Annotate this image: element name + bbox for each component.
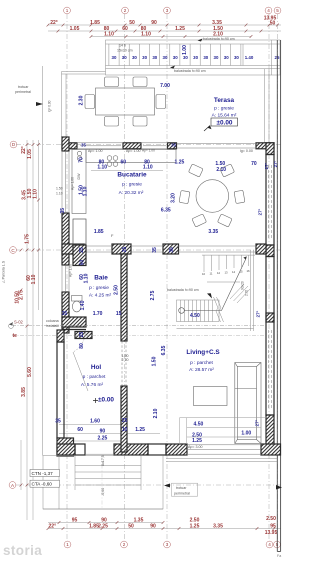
svg-text:30: 30	[122, 55, 127, 60]
svg-text:3.35: 3.35	[208, 229, 218, 235]
svg-text:3: 3	[166, 542, 169, 547]
svg-text:3.20: 3.20	[171, 193, 177, 203]
svg-text:1.40: 1.40	[80, 300, 86, 310]
svg-text:5.60: 5.60	[27, 367, 33, 377]
svg-text:30: 30	[193, 55, 198, 60]
svg-text:2.10: 2.10	[122, 358, 129, 362]
svg-text:Ap= 1.00: Ap= 1.00	[126, 149, 141, 153]
svg-text:13: 13	[225, 271, 229, 275]
svg-text:3: 3	[166, 8, 169, 13]
svg-text:1.25: 1.25	[135, 427, 145, 433]
svg-text:A: 15.64 m²: A: 15.64 m²	[212, 113, 237, 119]
svg-text:Ap= 1.00: Ap= 1.00	[142, 149, 155, 153]
svg-text:14: 14	[232, 270, 236, 274]
svg-text:Ap= 1.00: Ap= 1.00	[88, 149, 103, 153]
svg-text:10.50: 10.50	[15, 291, 21, 304]
svg-text:2.10: 2.10	[216, 167, 226, 173]
svg-text:35: 35	[169, 247, 175, 253]
svg-text:1.10: 1.10	[33, 189, 39, 199]
svg-text:Hol: Hol	[91, 364, 102, 371]
svg-text:1: 1	[66, 8, 69, 13]
svg-text:30: 30	[234, 55, 239, 60]
svg-text:60: 60	[77, 427, 83, 433]
svg-text:90: 90	[150, 524, 156, 530]
svg-text:25: 25	[122, 247, 128, 253]
svg-text:25: 25	[122, 418, 128, 424]
svg-text:lg= 0.00: lg= 0.00	[240, 149, 253, 153]
svg-text:4: 4	[268, 542, 271, 547]
svg-text:70: 70	[251, 161, 257, 167]
svg-text:4.50: 4.50	[194, 422, 204, 428]
svg-text:15x30 cm: 15x30 cm	[117, 49, 133, 53]
svg-text:1.25: 1.25	[190, 524, 200, 530]
svg-text:15: 15	[116, 311, 122, 317]
svg-text:25: 25	[79, 332, 85, 338]
svg-text:70: 70	[79, 157, 85, 163]
svg-text:A: 5.76 m²: A: 5.76 m²	[81, 382, 104, 388]
svg-text:10: 10	[122, 427, 128, 433]
svg-text:Terasa: Terasa	[214, 97, 235, 104]
svg-text:50: 50	[129, 20, 135, 26]
svg-text:80: 80	[79, 343, 85, 349]
svg-text:p : parchet: p : parchet	[190, 360, 213, 366]
svg-text:Ap= 1.00: Ap= 1.00	[71, 177, 75, 190]
svg-text:△ Parcela L.S: △ Parcela L.S	[2, 260, 6, 283]
svg-text:30: 30	[203, 55, 208, 60]
svg-text:2: 2	[124, 8, 127, 13]
svg-text:1.85: 1.85	[90, 20, 100, 26]
svg-text:60: 60	[121, 160, 127, 166]
svg-text:1.10: 1.10	[31, 274, 37, 284]
svg-text:95: 95	[72, 518, 78, 524]
svg-text:27°: 27°	[258, 208, 263, 215]
svg-text:14 b: 14 b	[119, 44, 126, 48]
svg-text:2.75: 2.75	[150, 290, 156, 300]
svg-text:35: 35	[171, 143, 176, 148]
svg-text:p : parchet: p : parchet	[83, 374, 106, 380]
svg-text:2.50: 2.50	[114, 285, 120, 295]
svg-text:perimetral: perimetral	[15, 90, 31, 94]
svg-text:12: 12	[217, 271, 221, 275]
svg-text:1.25: 1.25	[175, 159, 185, 165]
svg-text:lg= 0.00: lg= 0.00	[48, 100, 52, 112]
svg-text:-0,60: -0,60	[101, 488, 105, 496]
svg-text:coloana: coloana	[46, 319, 59, 323]
svg-text:1.05: 1.05	[70, 26, 80, 32]
svg-text:1.10: 1.10	[143, 164, 153, 170]
svg-text:trotuar: trotuar	[176, 486, 187, 490]
svg-text:balustrada h=90 cm: balustrada h=90 cm	[174, 69, 206, 73]
svg-text:Baie: Baie	[94, 275, 108, 282]
svg-text:6.35: 6.35	[161, 345, 167, 355]
svg-text:35: 35	[60, 208, 66, 214]
svg-text:1.75: 1.75	[25, 234, 31, 244]
svg-text:22°: 22°	[50, 20, 58, 26]
svg-text:1.50: 1.50	[56, 187, 63, 191]
svg-text:30: 30	[163, 55, 168, 60]
svg-text:1.25: 1.25	[192, 438, 202, 444]
svg-text:CTN -1,37: CTN -1,37	[32, 471, 54, 476]
svg-text:1: 1	[66, 542, 69, 547]
svg-text:2.30: 2.30	[78, 95, 84, 105]
svg-text:1.25: 1.25	[175, 26, 185, 32]
svg-text:6.35: 6.35	[161, 208, 171, 214]
svg-text:27°: 27°	[256, 310, 261, 317]
svg-text:1.10: 1.10	[56, 192, 63, 196]
svg-text:A: 4.25 m²: A: 4.25 m²	[89, 293, 112, 299]
svg-text:2: 2	[123, 542, 126, 547]
svg-text:90x20: 90x20	[241, 281, 245, 290]
svg-text:16: 16	[247, 269, 251, 273]
svg-text:50: 50	[270, 21, 276, 27]
svg-text:30: 30	[173, 55, 178, 60]
svg-text:35: 35	[81, 143, 86, 148]
svg-text:30: 30	[132, 55, 137, 60]
svg-text:Bucatarie: Bucatarie	[117, 172, 147, 179]
svg-text:2.70: 2.70	[245, 290, 249, 296]
svg-text:35: 35	[62, 311, 68, 317]
svg-text:A: 20.32 m²: A: 20.32 m²	[119, 190, 144, 196]
svg-text:30: 30	[142, 55, 147, 60]
svg-text:4: 4	[267, 8, 270, 13]
svg-text:Ap= 1.00: Ap= 1.00	[69, 264, 73, 277]
svg-text:3.85: 3.85	[21, 387, 27, 397]
svg-text:balustrada h=90 cm: balustrada h=90 cm	[167, 288, 199, 292]
svg-text:27°: 27°	[264, 162, 269, 169]
svg-text:41,5 R: 41,5 R	[70, 324, 80, 328]
svg-text:1.50: 1.50	[152, 356, 158, 366]
svg-text:te: te	[13, 333, 18, 339]
svg-text:25: 25	[79, 247, 85, 253]
svg-text:balustrada h=90 cm: balustrada h=90 cm	[203, 37, 235, 41]
svg-text:1.10: 1.10	[84, 273, 90, 283]
svg-text:3.35: 3.35	[213, 524, 223, 530]
svg-text:10: 10	[202, 272, 206, 276]
svg-text:storia: storia	[3, 543, 42, 558]
svg-text:CTA -0,60: CTA -0,60	[32, 482, 53, 487]
svg-text:27°: 27°	[273, 160, 278, 167]
svg-text:perimetral: perimetral	[174, 492, 190, 496]
svg-text:trotuar: trotuar	[18, 85, 29, 89]
svg-text:S-02: S-02	[14, 320, 24, 325]
svg-text:1.70: 1.70	[93, 311, 103, 317]
svg-text:1.40: 1.40	[245, 55, 254, 60]
svg-text:1.35: 1.35	[134, 518, 144, 524]
svg-text:27°: 27°	[255, 419, 260, 426]
svg-text:2.10: 2.10	[153, 408, 159, 418]
svg-text:1.00: 1.00	[241, 431, 251, 437]
svg-text:1.60: 1.60	[90, 419, 100, 425]
svg-text:8x17,5: 8x17,5	[101, 455, 105, 466]
svg-text:35: 35	[55, 419, 61, 425]
svg-text:instalatii: instalatii	[46, 324, 59, 328]
svg-text:95: 95	[270, 524, 276, 530]
svg-text:60: 60	[122, 26, 128, 32]
svg-text:4.50: 4.50	[190, 313, 200, 319]
svg-text:30: 30	[224, 55, 229, 60]
svg-text:Living+C.S: Living+C.S	[186, 349, 220, 356]
svg-text:11: 11	[210, 272, 213, 276]
svg-text:p : gresie: p : gresie	[122, 182, 142, 188]
svg-text:90: 90	[151, 20, 157, 26]
svg-text:2.25: 2.25	[98, 524, 108, 530]
svg-text:22°: 22°	[49, 524, 57, 530]
svg-text:30: 30	[112, 55, 117, 60]
svg-text:Fa: Fa	[277, 554, 281, 558]
svg-text:13.95: 13.95	[265, 530, 278, 536]
svg-text:1.50: 1.50	[215, 161, 225, 167]
svg-text:5: 5	[276, 8, 279, 13]
svg-text:2.25: 2.25	[98, 435, 108, 441]
svg-text:1.10: 1.10	[104, 32, 114, 38]
svg-text:1.00: 1.00	[182, 45, 188, 55]
svg-text:DW: DW	[77, 173, 81, 180]
svg-text:50: 50	[128, 524, 134, 530]
svg-text:1.85: 1.85	[94, 229, 104, 235]
svg-text:p : gresie: p : gresie	[214, 106, 234, 112]
svg-text:30: 30	[152, 55, 157, 60]
svg-text:±0.00: ±0.00	[98, 397, 114, 404]
svg-text:±0.00: ±0.00	[217, 120, 233, 127]
svg-text:1.10: 1.10	[97, 164, 107, 170]
svg-text:1.05: 1.05	[27, 149, 33, 159]
svg-text:90: 90	[100, 429, 106, 435]
svg-text:p : gresie: p : gresie	[89, 285, 109, 291]
svg-text:30: 30	[214, 55, 219, 60]
svg-text:1.10: 1.10	[141, 32, 151, 38]
svg-text:A: 28.57 m²: A: 28.57 m²	[189, 367, 214, 373]
svg-text:7.00: 7.00	[160, 83, 170, 89]
svg-text:35: 35	[152, 247, 158, 253]
svg-text:2.50: 2.50	[266, 516, 276, 522]
svg-text:Ap= 3.00: Ap= 3.00	[188, 445, 203, 449]
svg-text:50: 50	[79, 260, 85, 266]
svg-text:1.10: 1.10	[83, 186, 89, 196]
